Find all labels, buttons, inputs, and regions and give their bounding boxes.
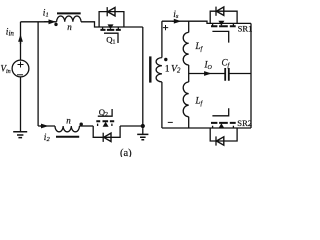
- filter inductor Lf bottom: [188, 74, 190, 83]
- transformer secondary winding: [161, 21, 163, 57]
- Q2 body arrow: [103, 122, 109, 127]
- voltage source Vin: [12, 60, 29, 77]
- Q1 body arrow: [108, 24, 114, 29]
- ground (left): [13, 132, 27, 138]
- Q2 stubs and body-diode loop: [93, 126, 120, 137]
- Q1 body diode: [106, 7, 108, 16]
- svg-text:iin: iin: [6, 27, 15, 37]
- label minus (secondary): [168, 121, 173, 123]
- SR1 body diode: [215, 7, 217, 16]
- svg-text:Q2: Q2: [99, 107, 108, 118]
- polarity dot secondary: [164, 58, 167, 61]
- rectifier SR2: [210, 108, 237, 145]
- polarity dot top winding: [54, 23, 57, 26]
- Vin plus sign: [18, 62, 24, 68]
- coupled inductor winding bottom, n: [55, 126, 79, 132]
- SR1 channel bars: [211, 25, 236, 27]
- Q1 channel bars: [100, 29, 120, 31]
- SR2 stubs and body-diode loop: [210, 128, 237, 141]
- core bar top winding: [57, 12, 81, 14]
- Q1 drain/source stubs and body-diode loop: [99, 12, 124, 27]
- svg-text:Lf: Lf: [195, 96, 204, 108]
- current arrow is: [172, 20, 177, 22]
- SR2 body diode: [215, 136, 217, 145]
- svg-text:is: is: [173, 10, 179, 20]
- wire Q2 to ground node: [120, 125, 143, 127]
- wire bottom winding to Q2: [79, 125, 93, 127]
- svg-text:V2: V2: [171, 63, 181, 74]
- svg-text:n: n: [66, 116, 71, 126]
- svg-text:Vin: Vin: [1, 64, 11, 76]
- SR1 body arrow: [218, 21, 224, 26]
- Q2 gate lead: [98, 109, 112, 116]
- svg-text:SR1: SR1: [238, 23, 253, 33]
- current arrow i1: [44, 21, 49, 23]
- output right rail: [250, 23, 252, 128]
- SR2 channel bars: [211, 122, 236, 124]
- transistor Q2: [93, 109, 120, 142]
- wire node A vertical (input branch): [37, 22, 39, 126]
- wire Vin top to top-left corner: [20, 22, 22, 60]
- polarity dot bottom winding: [80, 123, 83, 126]
- current arrow Io: [204, 71, 212, 76]
- SR1 stubs and body-diode loop: [210, 11, 237, 23]
- wire top rail left: [21, 21, 57, 23]
- Q2 channel ticks: [98, 124, 112, 126]
- SR1 gate lead: [212, 31, 228, 42]
- svg-text:IO: IO: [204, 60, 213, 72]
- SR2 body arrow: [218, 123, 224, 128]
- svg-text:(a): (a): [120, 148, 132, 157]
- svg-text:Lf: Lf: [195, 41, 204, 53]
- transformer core bar: [149, 56, 151, 82]
- Q2 channel bars: [96, 120, 114, 122]
- Q1 gate lead: [104, 33, 118, 43]
- wire Vin bottom: [20, 77, 22, 131]
- svg-text:1: 1: [165, 63, 170, 73]
- SR1 channel ticks: [213, 23, 234, 25]
- Vin minus sign: [17, 74, 23, 76]
- SR2 gate lead: [212, 108, 228, 116]
- secondary top wire: [162, 21, 251, 23]
- svg-text:i1: i1: [43, 8, 49, 18]
- core bar bottom winding: [56, 136, 79, 138]
- junction dot at ground node: [141, 124, 145, 128]
- label plus (secondary): [163, 25, 168, 30]
- rectifier SR1: [210, 7, 237, 43]
- svg-text:n: n: [67, 22, 72, 32]
- current arrow i_in: [20, 41, 22, 44]
- coupled inductor winding top, n: [57, 16, 81, 22]
- secondary bottom wire: [162, 127, 251, 129]
- svg-text:i2: i2: [44, 133, 51, 143]
- wire top winding to Q1: [81, 22, 143, 27]
- capacitor Cf: [225, 68, 229, 81]
- Q2 body diode: [102, 133, 104, 142]
- ground (right): [142, 128, 144, 134]
- current arrow i2: [40, 125, 45, 127]
- Q1 channel ticks: [103, 27, 119, 29]
- output mid wire: [189, 73, 225, 75]
- SR2 channel ticks: [213, 126, 234, 128]
- wire bottom rail left: [38, 125, 55, 127]
- svg-text:SR2: SR2: [237, 118, 252, 128]
- filter inductor Lf top: [188, 21, 190, 32]
- primary right rail: [142, 27, 144, 126]
- svg-text:Q1: Q1: [106, 35, 115, 46]
- svg-text:Cf: Cf: [222, 58, 231, 70]
- transistor Q1: [99, 7, 124, 43]
